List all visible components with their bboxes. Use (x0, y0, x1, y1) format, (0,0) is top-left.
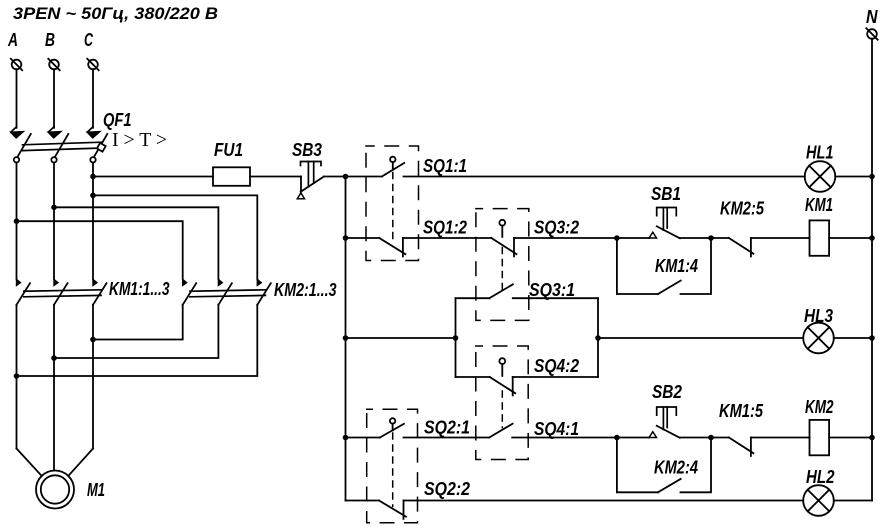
svg-text:KM2:4: KM2:4 (654, 457, 698, 478)
svg-text:SQ2:1: SQ2:1 (424, 417, 470, 438)
wire HL1 to N (835, 176, 872, 178)
junction solid box left (453, 335, 459, 341)
wire SB3 to bus (324, 176, 346, 178)
SB1 actuator stem (663, 208, 667, 231)
fuse FU1 (213, 167, 250, 186)
wire SQ2:2 to HL2 (404, 500, 804, 502)
wire phase B drop (53, 69, 55, 128)
wire phase A drop (16, 69, 18, 128)
QF1 pivot circle B (51, 157, 56, 162)
wire C to KM2 pole3 (93, 195, 257, 279)
svg-text:HL2: HL2 (806, 466, 835, 487)
contactor KM1:1...3 (17, 279, 107, 305)
junction solid box right (595, 335, 601, 341)
SB3 actuator stem (308, 162, 313, 187)
pushbutton SB2 (649, 407, 680, 438)
KM1 fixed tick pole A (17, 279, 21, 285)
junction N row1 (869, 174, 875, 180)
junction bus row2 (343, 235, 349, 241)
QF1 blade A (17, 134, 31, 157)
junction KM2-B merge (51, 355, 57, 361)
junction N row3 (869, 335, 875, 341)
wire KM2 pole3 output to A (17, 305, 258, 376)
junction row2 KM1:4 return (708, 235, 714, 241)
junction N row2 (869, 235, 875, 241)
wire HL3 to N (834, 337, 872, 339)
mechanical link SQ4 (501, 391, 503, 428)
solid box top edge left (456, 297, 490, 299)
junction N row4 (869, 435, 875, 441)
KM2 blade 2 (218, 283, 232, 305)
SB2 actuator head (657, 407, 677, 415)
SB1 blade (657, 226, 680, 238)
QF1 blade B (55, 134, 69, 157)
svg-text:HL3: HL3 (804, 305, 834, 326)
wire coil KM1 to N (829, 237, 872, 239)
phase terminal B (48, 59, 59, 70)
wire phase A below QF1 (16, 163, 18, 280)
dashed enclosure SQ1 (366, 146, 419, 261)
wire SQ2:1 to SQ4:1 (404, 437, 490, 439)
neutral bus N (871, 39, 873, 501)
wire KM1 pole A output (16, 305, 18, 449)
KM1 fixed tick pole C (93, 279, 97, 285)
wire SQ1:1 to HL1 (404, 176, 805, 178)
QF1 fixed contact arrow B (48, 127, 60, 138)
SB2 fixed triangle (649, 432, 657, 438)
junction row4 KM2:4 branch (614, 435, 620, 441)
junction bus row1 (343, 174, 349, 180)
wire bus corner to SQ2:2 (346, 500, 380, 502)
wire bus to SQ2:1 (346, 437, 380, 439)
wire KM1:5 to coil KM2 (751, 437, 810, 439)
wire FU1 to SB3 (250, 176, 301, 178)
SB2 blade (657, 426, 680, 438)
svg-text:SQ1:1: SQ1:1 (423, 155, 467, 176)
svg-text:SQ4:2: SQ4:2 (534, 355, 580, 376)
svg-text:KM1: KM1 (805, 194, 833, 215)
limit switch SQ4:1 (489, 424, 512, 438)
SB2 actuator stem (663, 407, 667, 430)
KM2 fixed tick pole 3 (257, 279, 261, 285)
wire HL2 to N corner (834, 500, 872, 502)
svg-text:SQ3:1: SQ3:1 (529, 279, 575, 300)
KM1 fixed tick pole B (54, 279, 58, 285)
svg-text:SQ1:2: SQ1:2 (423, 217, 468, 238)
QF1 linkage bar (23, 142, 102, 150)
svg-text:SQ2:2: SQ2:2 (424, 478, 471, 499)
svg-text:KM2: KM2 (805, 396, 834, 417)
svg-text:KM2:1...3: KM2:1...3 (274, 279, 337, 300)
QF1 pivot circle A (14, 157, 19, 162)
contact KM1:5 (729, 438, 754, 456)
wire SB2 to KM1:5 (680, 437, 729, 439)
pushbutton SB3 (297, 162, 323, 199)
SB3 blade (301, 177, 324, 192)
wire phase B below QF1 (53, 163, 55, 280)
wire SQ3:2 to SB1 (514, 237, 649, 239)
lamp HL3 (803, 323, 834, 354)
control bus left vertical (345, 177, 347, 501)
svg-text:3PEN ~ 50Гц, 380/220 В: 3PEN ~ 50Гц, 380/220 В (13, 5, 218, 23)
QF1 fixed contact arrow C (87, 127, 99, 138)
dashed enclosure SQ3 (476, 209, 529, 321)
wire KM2 pole2 output to B (54, 305, 218, 358)
mechanical link SQ2 (392, 433, 394, 507)
phase terminal A (11, 59, 22, 70)
wire SQ1:2 to SQ3:2 (403, 237, 492, 239)
KM1 blade A (17, 283, 31, 305)
KM2 linkage bar (190, 290, 266, 297)
KM2 fixed tick pole 1 (183, 279, 187, 285)
wire solid box to HL3 (598, 337, 803, 339)
junction C to KM2 branch (90, 193, 96, 199)
svg-text:SB3: SB3 (292, 139, 323, 160)
motor M1 (36, 471, 74, 509)
KM2 blade 3 (257, 283, 271, 305)
wire phase C drop (92, 69, 94, 128)
SB1 fixed triangle (649, 232, 657, 238)
junction C to control row1 (90, 174, 96, 180)
limit switch SQ2:2 (379, 501, 406, 519)
solid box bottom edge right (513, 376, 598, 378)
circuit breaker QF1 (11, 127, 107, 163)
svg-text:N: N (866, 6, 878, 27)
wire bus to solid box row3 (346, 337, 456, 339)
wire SQ4:1 to SB2 (512, 437, 649, 439)
SB3 latch triangle (297, 193, 304, 199)
wire KM1 pole B output (53, 305, 55, 471)
svg-text:SQ4:1: SQ4:1 (534, 418, 579, 439)
wire row1 from C to FU1 (93, 176, 213, 178)
contact KM2:5 (729, 238, 754, 256)
wire B to KM2 pole2 (54, 207, 218, 279)
phase terminal C (87, 59, 98, 70)
QF1 release square on pole C (97, 143, 106, 152)
SB3 left terminal drop (300, 177, 302, 192)
limit switch SQ2:1 (380, 418, 404, 437)
junction KM2-C merge (90, 337, 96, 343)
junction A to KM2 branch (14, 218, 20, 224)
svg-text:C: C (84, 29, 93, 50)
SB1 actuator head (657, 208, 677, 216)
wire SB1 to KM2:5 (680, 237, 729, 239)
junction bus row3 (343, 335, 349, 341)
dashed enclosure SQ4 (476, 346, 528, 460)
SB3 actuator head (301, 162, 322, 166)
QF1 blade C (94, 134, 108, 157)
svg-text:SQ3:2: SQ3:2 (534, 217, 580, 238)
pushbutton SB1 (649, 208, 680, 239)
wire KM2 pole1 output to C (93, 305, 183, 340)
limit switch SQ3:2 (491, 220, 516, 257)
mechanical link SQ3 (501, 248, 503, 290)
lamp HL1 (805, 161, 836, 192)
contactor KM2:1...3 (183, 279, 271, 305)
wire KM1 pole C output (92, 305, 94, 449)
solid box bottom edge left (456, 376, 490, 378)
limit switch SQ4:2 (490, 358, 516, 395)
svg-text:QF1: QF1 (103, 109, 132, 130)
wire phase C below QF1 (92, 163, 94, 280)
wire bus to SQ1:2 (346, 237, 380, 239)
svg-text:B: B (45, 29, 55, 50)
solid box top edge right (513, 297, 598, 299)
junction bus row4 (343, 435, 349, 441)
dashed enclosure SQ2 (367, 409, 418, 523)
junction row4 KM2:4 return (708, 435, 714, 441)
coil KM1 (810, 220, 830, 255)
contact KM1:4 (617, 238, 711, 294)
solid box right edge (597, 298, 599, 377)
KM1 linkage bar (24, 290, 101, 297)
wire KM2:5 to coil KM1 (751, 237, 810, 239)
svg-text:HL1: HL1 (806, 142, 834, 163)
limit switch SQ1:1 (382, 157, 404, 177)
KM2 fixed tick pole 2 (218, 279, 222, 285)
svg-text:KM1:4: KM1:4 (655, 255, 698, 276)
svg-text:M1: M1 (87, 479, 105, 500)
svg-text:FU1: FU1 (214, 139, 243, 160)
KM2 blade 1 (183, 283, 197, 305)
junction KM2-A merge (14, 373, 20, 379)
limit switch SQ1:2 (379, 238, 405, 256)
KM1 blade C (93, 283, 107, 305)
svg-text:I > T >: I > T > (112, 129, 167, 151)
solid box left edge (455, 298, 457, 377)
svg-text:KM2:5: KM2:5 (720, 198, 765, 219)
lamp HL2 (803, 485, 834, 516)
neutral terminal N (866, 28, 877, 39)
svg-text:SB1: SB1 (651, 183, 681, 204)
limit switch SQ3:1 (489, 284, 512, 298)
mechanical link SQ1 (392, 173, 394, 245)
wire coil KM2 to N (829, 437, 872, 439)
wire motor lead C (68, 449, 93, 476)
svg-text:A: A (7, 29, 18, 50)
junction B to KM2 branch (51, 205, 57, 211)
coil KM2 (810, 420, 830, 455)
svg-text:KM1:1...3: KM1:1...3 (109, 278, 170, 299)
svg-text:SB2: SB2 (652, 381, 683, 402)
QF1 fixed contact arrow A (11, 127, 23, 138)
contact KM2:4 (617, 438, 711, 493)
svg-text:KM1:5: KM1:5 (719, 400, 764, 421)
wire A to KM2 pole1 (17, 221, 183, 279)
wire bus to SQ1:1 (346, 176, 382, 178)
junction row2 KM1:4 branch (614, 235, 620, 241)
wire motor lead A (17, 449, 42, 476)
QF1 pivot circle C (90, 157, 95, 162)
KM1 blade B (54, 283, 68, 305)
